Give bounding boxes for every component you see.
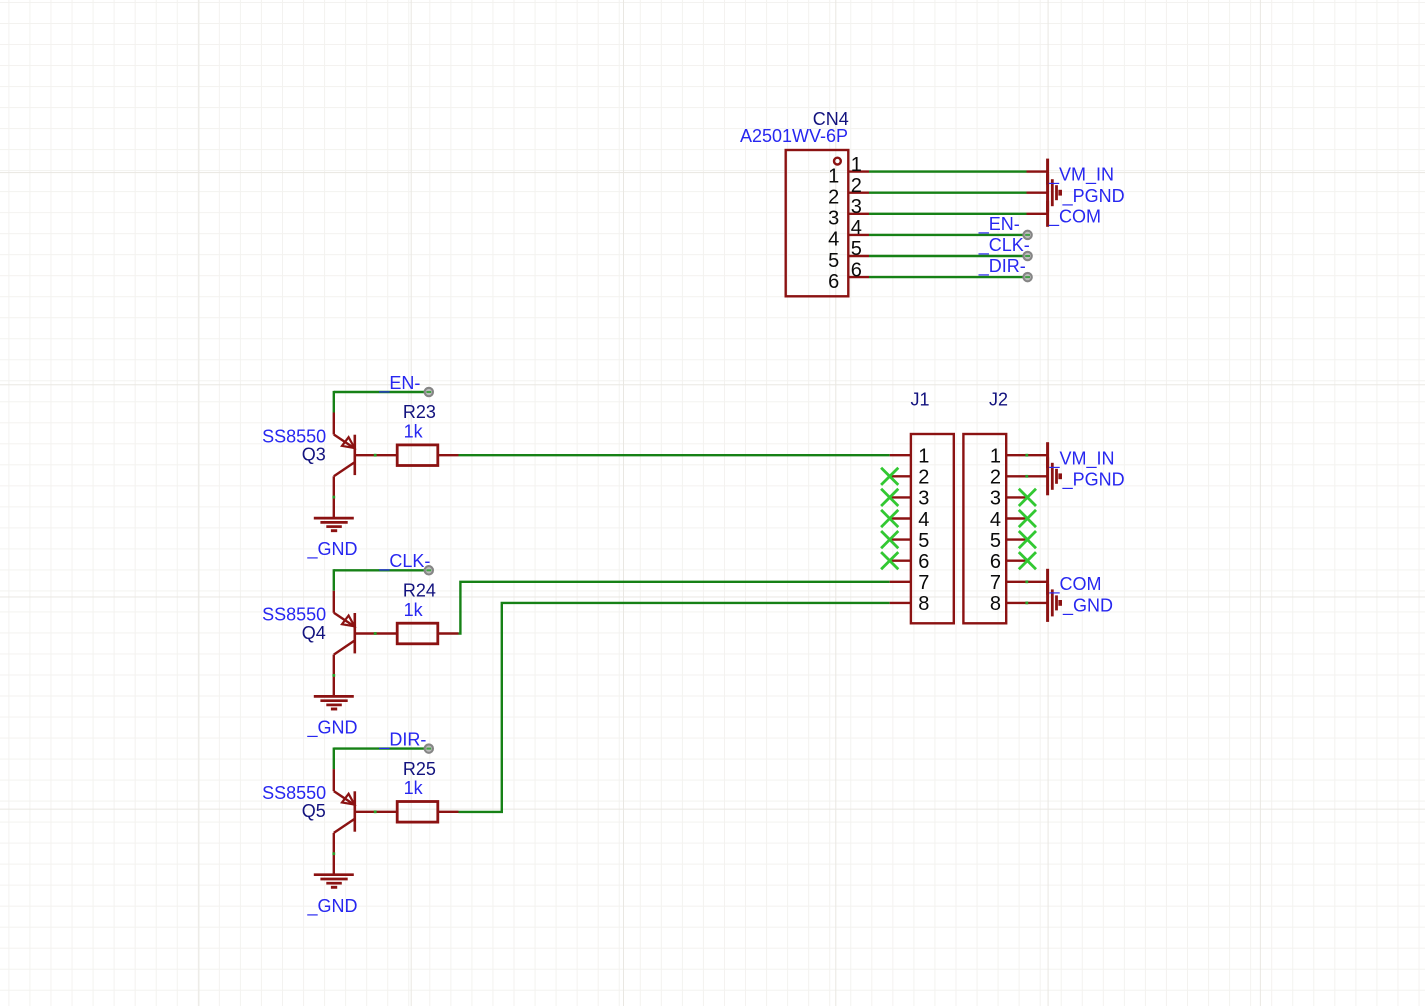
svg-text:6: 6 — [918, 551, 929, 573]
connector J1 body — [911, 434, 954, 623]
svg-text:SS8550: SS8550 — [262, 605, 326, 625]
svg-text:8: 8 — [990, 593, 1001, 615]
connector J2 pin 4 stub — [1006, 517, 1027, 519]
junction dot on Q4 base line — [374, 632, 377, 635]
net port _CLK- (gray circle) at Q4 — [425, 566, 433, 574]
svg-text:8: 8 — [918, 593, 929, 615]
svg-text:3: 3 — [828, 208, 839, 230]
svg-text:1k: 1k — [404, 600, 424, 620]
wire CN4 pin 1 to power flag (red tail) — [1027, 170, 1048, 172]
wire CN4 pin 3 to power flag (red tail) — [1027, 213, 1048, 215]
wire R24 to J1 pin 7 (net _CLK-) — [459, 582, 890, 634]
no-connect X on J1 pin 5 — [881, 531, 898, 548]
wire CN4 pin 6 to net port _DIR- — [869, 276, 1023, 278]
svg-text:5: 5 — [990, 530, 1001, 552]
net port _EN- (gray circle) at Q3 — [425, 388, 433, 396]
transistor Q4 base line to resistor — [355, 632, 398, 634]
svg-text:_GND: _GND — [307, 896, 358, 917]
transistor Q3 collector pin down — [333, 476, 335, 518]
resistor R23 right pin stub — [437, 454, 459, 456]
svg-text:_VM_IN: _VM_IN — [1048, 165, 1114, 186]
no-connect X on J1 pin 2 — [881, 468, 898, 485]
net port _EN- (gray circle) — [1023, 231, 1031, 239]
ground symbol below Q4 — [314, 696, 354, 709]
connector J2 pin 3 stub — [1006, 496, 1027, 498]
power flag _COM bar at J2 pin 7 — [1046, 569, 1049, 595]
wire net _EN- horizontal at Q3 — [334, 391, 424, 393]
junction dot on Q3 base line — [374, 454, 377, 457]
svg-text:_CLK-: _CLK- — [978, 235, 1030, 256]
svg-text:6: 6 — [828, 271, 839, 293]
connector CN4 pin 3 stub — [848, 213, 869, 215]
connector CN4 pin 1 stub — [848, 170, 869, 172]
svg-text:1: 1 — [828, 165, 839, 187]
connector J1 pin 4 stub — [890, 517, 911, 519]
no-connect X on J2 pin 6 — [1019, 552, 1036, 569]
connector J2 pin 7 stub — [1006, 581, 1047, 583]
svg-text:1: 1 — [918, 446, 929, 468]
svg-text:R24: R24 — [403, 581, 436, 601]
transistor Q3 base bar — [353, 435, 356, 475]
svg-text:4: 4 — [828, 229, 839, 251]
transistor Q5 collector diagonal — [334, 819, 355, 833]
resistor R24 right pin stub — [437, 632, 459, 634]
no-connect X on J2 pin 4 — [1019, 510, 1036, 527]
svg-text:4: 4 — [851, 217, 862, 239]
wire vertical into Q4 emitter — [333, 569, 335, 591]
svg-text:_EN-: _EN- — [978, 214, 1020, 235]
resistor R25 right pin stub — [437, 811, 459, 813]
wire CN4 pin 5 to net port _CLK- — [869, 255, 1023, 257]
connector J1 pin 5 stub — [890, 538, 911, 540]
connector CN4 pin 5 stub — [848, 255, 869, 257]
power flag _COM bar at CN4 — [1046, 201, 1049, 227]
svg-text:Q4: Q4 — [302, 623, 326, 643]
svg-text:5: 5 — [851, 238, 862, 260]
svg-text:J2: J2 — [989, 389, 1008, 409]
svg-text:R23: R23 — [403, 402, 436, 422]
no-connect X on J2 pin 3 — [1019, 489, 1036, 506]
svg-text:_COM: _COM — [1048, 206, 1101, 227]
svg-text:J1: J1 — [911, 389, 930, 409]
svg-text:_GND: _GND — [307, 718, 358, 739]
transistor Q3 emitter arrow — [342, 437, 355, 448]
wire CN4 pin 1 to power flag (green) — [869, 170, 1027, 172]
svg-text:_EN-: _EN- — [378, 373, 420, 394]
transistor Q5 emitter diagonal — [334, 791, 355, 805]
connector J1 pin 2 stub — [890, 475, 911, 477]
transistor Q3 base line to resistor — [355, 454, 398, 456]
junction dot on Q5 collector — [332, 852, 335, 855]
connector J1 pin 7 stub — [890, 581, 911, 583]
transistor Q3 emitter diagonal — [334, 435, 355, 449]
svg-text:_DIR-: _DIR- — [978, 256, 1026, 277]
svg-text:2: 2 — [851, 175, 862, 197]
net port _DIR- (gray circle) — [1023, 273, 1031, 281]
svg-text:_VM_IN: _VM_IN — [1049, 448, 1115, 469]
transistor Q4 collector diagonal — [334, 640, 355, 654]
wire CN4 pin 4 to net port _EN- — [869, 234, 1023, 236]
svg-text:6: 6 — [990, 551, 1001, 573]
svg-text:4: 4 — [918, 509, 929, 531]
connector CN4 pin 4 stub — [848, 234, 869, 236]
ground symbol below Q5 — [314, 875, 354, 888]
svg-text:7: 7 — [918, 572, 929, 594]
junction dot on Q4 collector — [332, 674, 335, 677]
svg-text:5: 5 — [918, 530, 929, 552]
svg-text:_COM: _COM — [1049, 574, 1102, 595]
power flag _VM_IN bar at J2 pin 1 — [1046, 442, 1049, 468]
junction dot on Q5 base line — [374, 810, 377, 813]
svg-text:2: 2 — [918, 467, 929, 489]
wire R25 to J1 pin 8 (net _DIR-) — [459, 603, 890, 812]
svg-text:2: 2 — [990, 467, 1001, 489]
svg-text:1: 1 — [851, 154, 862, 176]
svg-text:2: 2 — [828, 187, 839, 209]
no-connect X on J1 pin 3 — [881, 489, 898, 506]
svg-text:3: 3 — [990, 488, 1001, 510]
transistor Q3 collector diagonal — [334, 462, 355, 476]
connector CN4 pin-1 indicator circle — [834, 158, 841, 165]
connector CN4 pin 6 stub — [848, 276, 869, 278]
svg-text:4: 4 — [990, 509, 1001, 531]
svg-text:SS8550: SS8550 — [262, 426, 326, 446]
svg-text:_GND: _GND — [1062, 595, 1113, 616]
transistor Q5 base bar — [353, 791, 356, 831]
power flag _PGND ground symbol at J2 pin 2 — [1048, 457, 1061, 495]
wire CN4 pin 2 to power flag (red tail) — [1027, 191, 1048, 193]
wire net _CLK- horizontal at Q4 — [334, 569, 424, 571]
transistor Q5 emitter arrow — [342, 794, 355, 805]
svg-text:_PGND: _PGND — [1062, 186, 1125, 207]
transistor Q5 base line to resistor — [355, 811, 398, 813]
no-connect X on J1 pin 4 — [881, 510, 898, 527]
svg-text:3: 3 — [851, 196, 862, 218]
connector J2 pin 2 stub — [1006, 475, 1047, 477]
svg-text:5: 5 — [828, 250, 839, 272]
svg-text:_DIR-: _DIR- — [378, 729, 426, 750]
connector J1 pin 8 stub — [890, 602, 911, 604]
svg-text:_PGND: _PGND — [1062, 470, 1125, 491]
transistor Q4 emitter arrow — [342, 616, 355, 627]
svg-text:Q5: Q5 — [302, 801, 326, 821]
transistor Q5 emitter pin — [333, 769, 335, 791]
transistor Q4 emitter diagonal — [334, 613, 355, 627]
svg-text:_GND: _GND — [307, 539, 358, 560]
transistor Q5 collector pin down — [333, 833, 335, 875]
transistor Q4 collector pin down — [333, 655, 335, 697]
svg-text:SS8550: SS8550 — [262, 783, 326, 803]
resistor R25 body — [397, 802, 438, 823]
connector CN4 body — [786, 150, 849, 296]
connector J2 pin 6 stub — [1006, 560, 1027, 562]
ground symbol below Q3 — [314, 518, 354, 531]
wire CN4 pin 3 to power flag (green) — [869, 213, 1027, 215]
connector J1 pin 1 stub — [890, 454, 911, 456]
svg-text:A2501WV-6P: A2501WV-6P — [740, 126, 848, 146]
connector CN4 pin 2 stub — [848, 191, 869, 193]
svg-text:6: 6 — [851, 259, 862, 281]
connector J2 pin 5 stub — [1006, 538, 1027, 540]
wire vertical into Q3 emitter — [333, 391, 335, 413]
wire vertical into Q5 emitter — [333, 748, 335, 770]
wire R23 to J1 pin 1 (net _EN-) — [459, 454, 890, 456]
connector J2 pin 1 stub — [1006, 454, 1047, 456]
svg-text:1k: 1k — [404, 422, 424, 442]
no-connect X on J2 pin 5 — [1019, 531, 1036, 548]
connector J1 pin 6 stub — [890, 560, 911, 562]
svg-text:1k: 1k — [404, 778, 424, 798]
transistor Q4 emitter pin — [333, 591, 335, 613]
wire net _DIR- horizontal at Q5 — [334, 747, 424, 749]
resistor R24 body — [397, 623, 438, 644]
power flag _GND ground symbol at J2 pin 8 — [1048, 584, 1061, 622]
connector J1 pin 3 stub — [890, 496, 911, 498]
net port _DIR- (gray circle) at Q5 — [425, 744, 433, 752]
svg-text:R25: R25 — [403, 759, 436, 779]
junction dot on Q3 collector — [332, 496, 335, 499]
svg-text:3: 3 — [918, 488, 929, 510]
power flag _VM_IN bar at CN4 — [1046, 159, 1049, 185]
svg-text:7: 7 — [990, 572, 1001, 594]
connector J2 pin 8 stub — [1006, 602, 1047, 604]
transistor Q4 base bar — [353, 613, 356, 653]
connector J2 body — [963, 434, 1006, 623]
wire CN4 pin 2 to power flag (green) — [869, 191, 1027, 193]
svg-text:Q3: Q3 — [302, 445, 326, 465]
transistor Q3 emitter pin — [333, 413, 335, 435]
svg-text:1: 1 — [990, 446, 1001, 468]
power flag _PGND ground symbol at CN4 — [1048, 174, 1061, 212]
svg-text:_CLK-: _CLK- — [378, 551, 430, 572]
net port _CLK- (gray circle) — [1023, 252, 1031, 260]
no-connect X on J1 pin 6 — [881, 552, 898, 569]
resistor R23 body — [397, 445, 438, 466]
